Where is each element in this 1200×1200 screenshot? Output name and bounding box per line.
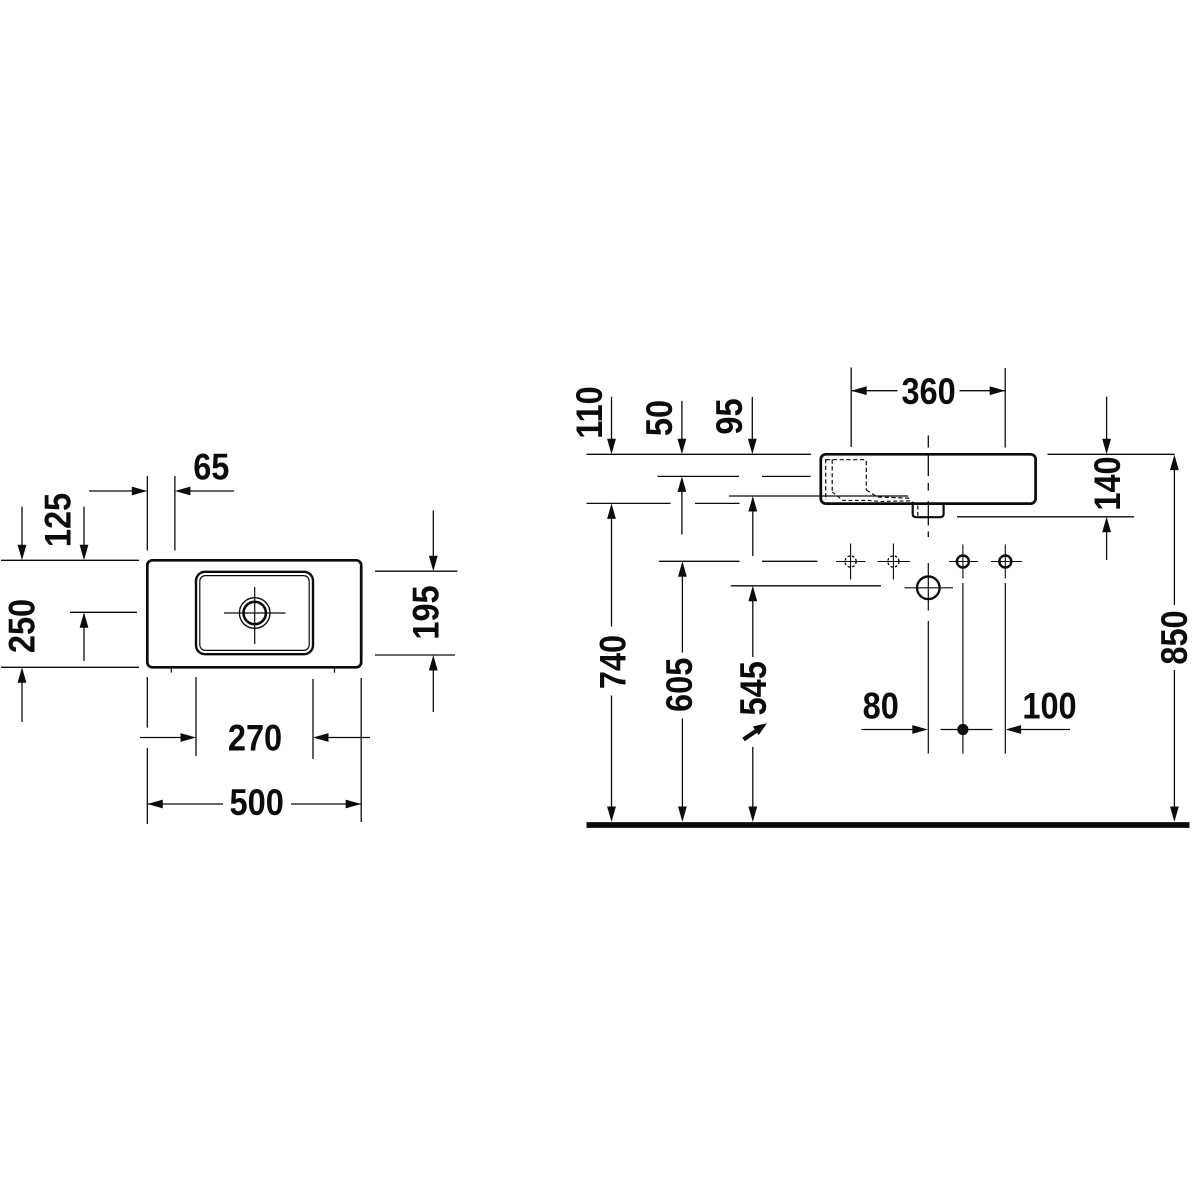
- dimension 500 line: [147, 803, 223, 805]
- hole extension below right2: [1004, 583, 1006, 754]
- mounting hole solid right2: [999, 556, 1011, 568]
- svg-text:500: 500: [230, 782, 284, 823]
- rim extension line right: [1048, 453, 1175, 455]
- drain inner circle: [244, 602, 266, 624]
- dimension 270 left arrow: [140, 737, 181, 739]
- dimension 95 down arrow: [751, 397, 753, 440]
- hidden basin slope dashed lower: [832, 492, 914, 503]
- dimension 110 down arrow: [611, 397, 613, 440]
- drain outer circle: [239, 598, 270, 629]
- vertical centerline chain: [927, 436, 929, 448]
- extension line basin left below: [195, 677, 197, 756]
- mounting hole dashed left2: [888, 556, 899, 567]
- floor line: [587, 822, 1190, 828]
- bottom edge tick right: [334, 667, 336, 672]
- extension line top edge left: [1, 559, 139, 561]
- extension line basin bottom right: [375, 654, 455, 656]
- tap hole reference dot: [957, 724, 968, 735]
- dimension 605 up arrow: [681, 576, 683, 653]
- hole extension above left1: [850, 368, 852, 448]
- basin bowl inner rim: [200, 576, 309, 651]
- hidden basin slope dashed upper: [866, 490, 911, 498]
- mounting hole dashed left1: [845, 556, 856, 567]
- dimension 110-740 shared up arrow: [611, 518, 613, 627]
- dimension 740 line to floor: [611, 696, 613, 808]
- crosshair hole right2: [991, 561, 1022, 563]
- drain crosshair horizontal: [224, 612, 286, 614]
- dimension 250 up arrow: [21, 682, 23, 722]
- dimension 545 up arrow: [752, 601, 754, 658]
- dimension 50 up arrow: [681, 491, 683, 535]
- extension line left edge below: [146, 677, 148, 728]
- dimension 545 line to floor: [752, 747, 754, 807]
- leader arrow for 545: [744, 729, 760, 740]
- svg-text:850: 850: [1154, 610, 1195, 664]
- dimension 605 line to floor: [681, 719, 683, 808]
- extension line bottom edge left: [1, 666, 139, 668]
- dimension 140 down arrow: [1106, 397, 1108, 440]
- hidden basin right wall dashed: [865, 461, 867, 490]
- svg-text:125: 125: [38, 493, 79, 547]
- extension line basin right below: [312, 679, 314, 759]
- dimension 50 down arrow: [681, 401, 683, 440]
- hidden basin wall dashed left outer: [825, 459, 827, 500]
- dimension 125 up arrow: [83, 627, 85, 661]
- hole centerline 605 line: [659, 560, 740, 562]
- dimension 80 arrow: [862, 729, 914, 731]
- mounting hole solid right1: [957, 556, 969, 568]
- svg-text:360: 360: [901, 371, 955, 412]
- centerline below drain: [927, 621, 929, 754]
- washbasin front view body: [821, 454, 1036, 503]
- svg-text:100: 100: [1022, 685, 1076, 726]
- extension line basin top right: [375, 570, 458, 572]
- svg-text:740: 740: [593, 635, 634, 689]
- crosshair drain front: [905, 587, 954, 589]
- svg-text:250: 250: [2, 599, 43, 653]
- outlet bottom 140 line: [957, 516, 1134, 518]
- dimension 65 left arrow: [89, 490, 133, 492]
- tap deck 50 line: [658, 475, 740, 477]
- dimension 195 down arrow: [432, 510, 434, 556]
- hole extension above right2: [1004, 368, 1006, 448]
- dimension 195 up arrow: [432, 670, 434, 713]
- hidden outlet dash: [917, 506, 919, 517]
- dimension 65 right arrow: [189, 490, 234, 492]
- svg-text:95: 95: [709, 398, 750, 434]
- dimension 850 line: [1173, 469, 1175, 605]
- svg-text:140: 140: [1087, 456, 1128, 510]
- hole extension below right1: [962, 583, 964, 754]
- svg-text:605: 605: [659, 658, 700, 712]
- dimension 125 down arrow: [83, 507, 85, 546]
- dimension 270 right arrow: [328, 737, 371, 739]
- svg-text:110: 110: [569, 386, 610, 439]
- body bottom extension 110 line: [587, 502, 671, 504]
- crosshair hole left2: [878, 561, 910, 563]
- dimension 140 up arrow: [1106, 532, 1108, 561]
- bottom edge tick left: [170, 667, 172, 672]
- dimension 95 up arrow: [752, 511, 754, 557]
- crosshair hole right1: [949, 561, 978, 563]
- rim extension line left: [587, 453, 812, 455]
- crosshair hole left1: [836, 561, 866, 563]
- drain circle front: [917, 577, 940, 600]
- washbasin plan view outline 500x250: [147, 560, 361, 667]
- extension line right edge below: [360, 678, 362, 822]
- drain center 545 line: [731, 585, 881, 587]
- basin bowl outer rim: [196, 572, 313, 654]
- dimension 250 down arrow: [21, 507, 23, 546]
- 95 reference line: [729, 495, 908, 497]
- drain crosshair vertical: [254, 587, 256, 644]
- svg-text:65: 65: [193, 446, 229, 487]
- dimension 360 line: [851, 390, 897, 392]
- extension line basin centerline left: [70, 611, 137, 613]
- svg-text:545: 545: [733, 661, 774, 715]
- drain outlet below body: [913, 504, 944, 517]
- dimension 100 arrow: [1021, 729, 1070, 731]
- svg-text:80: 80: [863, 685, 899, 726]
- extension line left edge above: [146, 476, 148, 551]
- svg-text:195: 195: [406, 585, 447, 639]
- svg-text:50: 50: [639, 400, 680, 436]
- extension line 65 offset above: [174, 476, 176, 551]
- svg-text:270: 270: [228, 718, 282, 759]
- hidden basin wall dashed left inner: [831, 460, 833, 493]
- hidden basin top dashed: [826, 459, 866, 461]
